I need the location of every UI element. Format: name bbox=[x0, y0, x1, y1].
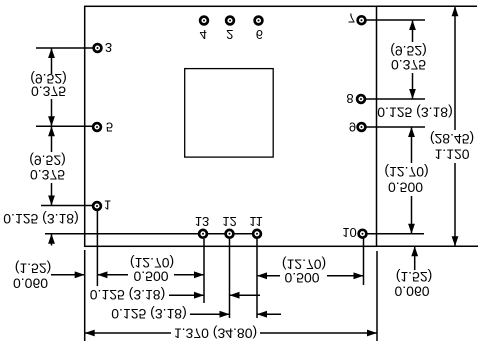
dim 1.120 overall line bbox=[454, 6, 456, 130]
dim 0.500 right line bbox=[411, 127, 413, 163]
vert ext hole 11 bbox=[256, 239, 258, 318]
svg-text:9: 9 bbox=[349, 119, 356, 134]
dim 0.375 left upper line bbox=[51, 48, 53, 74]
dim 0.125 row12-11 bbox=[111, 306, 187, 322]
hole 3 bbox=[94, 44, 102, 52]
arrow down at hole10 row bbox=[408, 224, 415, 234]
label 3 bbox=[105, 40, 112, 55]
label 4 bbox=[200, 27, 207, 42]
svg-text:(9.52): (9.52) bbox=[29, 153, 66, 169]
svg-text:0.500: 0.500 bbox=[133, 269, 168, 285]
hole 10 row line bbox=[363, 233, 425, 235]
text 0.500 (12.70) bottom-left bbox=[130, 255, 174, 271]
svg-text:0.375: 0.375 bbox=[30, 167, 65, 183]
text 1.120 (28.45) bbox=[430, 131, 474, 147]
arrow down at hole8 row bbox=[409, 89, 416, 99]
svg-text:0.500: 0.500 bbox=[284, 270, 319, 286]
vert ext hole 12 bbox=[229, 239, 231, 318]
hole 12 bbox=[226, 230, 234, 238]
label 10 bbox=[342, 225, 356, 240]
svg-text:(12.70): (12.70) bbox=[384, 164, 428, 180]
svg-text:10: 10 bbox=[342, 225, 356, 240]
arrow down at hole5 row bbox=[48, 116, 55, 126]
dim 0.060 left leader bbox=[51, 274, 85, 276]
hole 5 bbox=[93, 123, 101, 131]
arrow right at hole13 col bbox=[194, 271, 204, 278]
arrow up at hole9 row bbox=[408, 127, 415, 137]
extension line hole 9 row bbox=[366, 126, 425, 128]
vert ext hole 13 bbox=[203, 239, 205, 303]
svg-text:11: 11 bbox=[249, 214, 263, 229]
hole 1 bbox=[93, 202, 101, 210]
svg-text:1: 1 bbox=[104, 197, 111, 212]
arrow right at hole10 col bbox=[354, 272, 364, 279]
bottom hole row line bbox=[45, 233, 257, 235]
text 0.060 (1.52) left bbox=[15, 261, 52, 277]
svg-text:(12.70): (12.70) bbox=[130, 255, 174, 271]
label 9 bbox=[349, 119, 356, 134]
svg-text:0.375: 0.375 bbox=[31, 84, 66, 100]
label 13 bbox=[195, 214, 209, 229]
svg-text:3: 3 bbox=[105, 40, 112, 55]
svg-text:6: 6 bbox=[256, 27, 263, 42]
arrow up at hole7 row bbox=[409, 20, 416, 30]
bottom edge extension bbox=[377, 245, 479, 247]
text 0.375 (9.52) left lower bbox=[29, 153, 66, 169]
svg-text:(1.52): (1.52) bbox=[396, 269, 433, 285]
label 12 bbox=[222, 214, 236, 229]
label 1 bbox=[104, 197, 111, 212]
svg-text:1.370 (34.80): 1.370 (34.80) bbox=[174, 326, 257, 342]
dim 0.125 row13-12 bbox=[90, 287, 166, 303]
label 2 bbox=[226, 27, 233, 42]
dim 1.370 overall width bbox=[85, 332, 171, 334]
dim 0.500 bottom-left line bbox=[97, 274, 128, 276]
svg-text:0.125 (3.18): 0.125 (3.18) bbox=[111, 306, 187, 322]
label 5 bbox=[106, 119, 113, 134]
vert ext board left bbox=[84, 250, 86, 341]
arrow up at top edge bbox=[452, 6, 459, 16]
hole 13 bbox=[199, 230, 207, 238]
svg-text:(1.52): (1.52) bbox=[15, 261, 52, 277]
svg-text:0.125 (3.18): 0.125 (3.18) bbox=[3, 211, 79, 227]
svg-text:0.060: 0.060 bbox=[394, 284, 429, 300]
dim 0.500 bottom-right line bbox=[257, 275, 280, 277]
svg-text:13: 13 bbox=[195, 214, 209, 229]
hole 6 bbox=[255, 17, 263, 25]
extension line hole 3 row bbox=[36, 47, 98, 49]
vert ext hole 10 bbox=[363, 238, 365, 285]
svg-text:5: 5 bbox=[106, 119, 113, 134]
svg-text:(9.52): (9.52) bbox=[390, 43, 427, 59]
svg-text:8: 8 bbox=[346, 91, 353, 106]
text 0.375 (9.52) right bbox=[390, 43, 427, 59]
svg-text:0.375: 0.375 bbox=[391, 57, 426, 73]
label 7 bbox=[348, 10, 355, 25]
svg-text:0.125 (3.18): 0.125 (3.18) bbox=[90, 287, 166, 303]
board outline bbox=[85, 6, 377, 246]
hole 7 bbox=[358, 16, 366, 24]
hole 4 bbox=[200, 17, 208, 25]
IC body square bbox=[185, 69, 274, 158]
text 0.500 (12.70) bottom-right bbox=[282, 257, 326, 273]
svg-text:12: 12 bbox=[222, 214, 236, 229]
extension line hole 5 row bbox=[36, 125, 97, 127]
label 11 bbox=[249, 214, 263, 229]
hole 10 bbox=[359, 230, 367, 238]
hole 2 bbox=[226, 17, 234, 25]
hole 9 bbox=[358, 123, 366, 131]
svg-text:0.125 (3.18): 0.125 (3.18) bbox=[377, 105, 453, 121]
label 6 bbox=[256, 27, 263, 42]
svg-text:4: 4 bbox=[200, 27, 207, 42]
arrow up at hole5 row b bbox=[48, 126, 55, 136]
text 0.375 (9.52) left upper bbox=[30, 71, 67, 87]
svg-text:2: 2 bbox=[226, 27, 233, 42]
arrow left at hole1 col bbox=[97, 271, 107, 278]
arrow up at bottom edge right bbox=[411, 246, 418, 256]
arrow left at hole11 col bbox=[257, 272, 267, 279]
hole 8 bbox=[357, 95, 365, 103]
extension line hole 7 row bbox=[366, 19, 425, 21]
arrow down at hole1 row bbox=[48, 196, 55, 206]
svg-text:0.500: 0.500 bbox=[388, 180, 423, 196]
svg-text:(28.45): (28.45) bbox=[430, 131, 474, 147]
label 8 bbox=[346, 91, 353, 106]
text 0.125 (3.18) left bbox=[3, 211, 79, 227]
svg-text:0.060: 0.060 bbox=[13, 276, 48, 292]
svg-text:7: 7 bbox=[348, 10, 355, 25]
top edge extension bbox=[377, 5, 478, 7]
extension line hole 1 row bbox=[41, 205, 97, 207]
text 0.500 (12.70) right bbox=[384, 164, 428, 180]
text 0.060 (1.52) right bbox=[396, 269, 433, 285]
dim 0.375 left lower line bbox=[51, 126, 53, 152]
arrow down at bottom edge bbox=[452, 236, 459, 246]
hole 11 bbox=[253, 230, 261, 238]
vert ext board right bbox=[376, 251, 378, 341]
arrow up at bottom row left bbox=[48, 234, 55, 244]
dim 0.375 right line bbox=[412, 20, 414, 42]
vert ext hole 1 bbox=[96, 211, 98, 286]
svg-text:1.120: 1.120 bbox=[434, 147, 469, 163]
text 0.125 (3.18) right bbox=[377, 105, 453, 121]
arrow up at hole3 row bbox=[48, 48, 55, 58]
extension line hole 8 row bbox=[366, 98, 425, 100]
